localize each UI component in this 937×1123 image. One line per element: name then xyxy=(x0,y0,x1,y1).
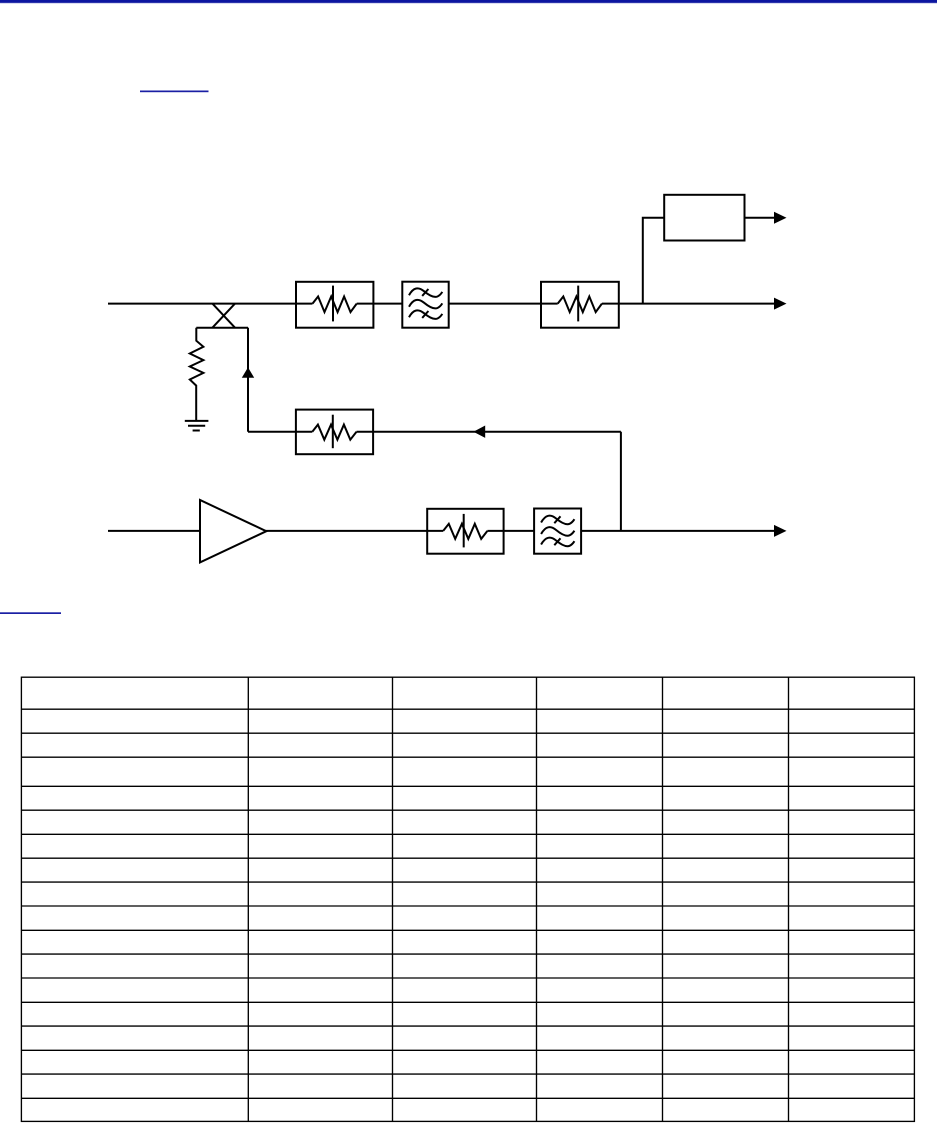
arrowhead: detector output xyxy=(774,212,787,224)
wire: bottom chain main line xyxy=(108,530,775,532)
attenuator AT4 (bottom chain) xyxy=(427,509,503,554)
arrowhead: top chain output xyxy=(774,298,787,310)
attenuator AT3 (LO run) xyxy=(296,410,373,455)
filter FL2 (bottom chain) xyxy=(534,509,581,554)
detector box U1 xyxy=(664,195,744,241)
wire: mixer bottom bus xyxy=(196,327,248,329)
arrowhead: LO run pointing left xyxy=(473,426,485,438)
wire: LO feed vertical (mixer drop) xyxy=(247,328,249,432)
wire: detector output xyxy=(745,217,776,219)
hyperlink underline (top) xyxy=(140,91,209,93)
wire: branch up to detector box xyxy=(643,218,664,304)
arrowhead: bottom chain output xyxy=(774,525,787,537)
mixer X1 xyxy=(212,304,235,328)
amplifier A1 xyxy=(200,500,266,562)
hyperlink underline (left margin) xyxy=(0,612,61,614)
wire: LO horizontal run xyxy=(248,431,621,433)
filter FL1 xyxy=(402,282,448,328)
wire: top chain main line xyxy=(108,303,775,305)
resistor R1 xyxy=(190,328,204,421)
table xyxy=(21,677,914,1121)
attenuator AT1 xyxy=(296,282,373,328)
wire: junction vertical drop to bottom chain xyxy=(620,432,622,531)
attenuator AT2 xyxy=(541,282,619,328)
arrowhead: LO feed pointing up xyxy=(242,367,254,377)
ground xyxy=(185,421,209,431)
top header bar xyxy=(0,0,937,4)
